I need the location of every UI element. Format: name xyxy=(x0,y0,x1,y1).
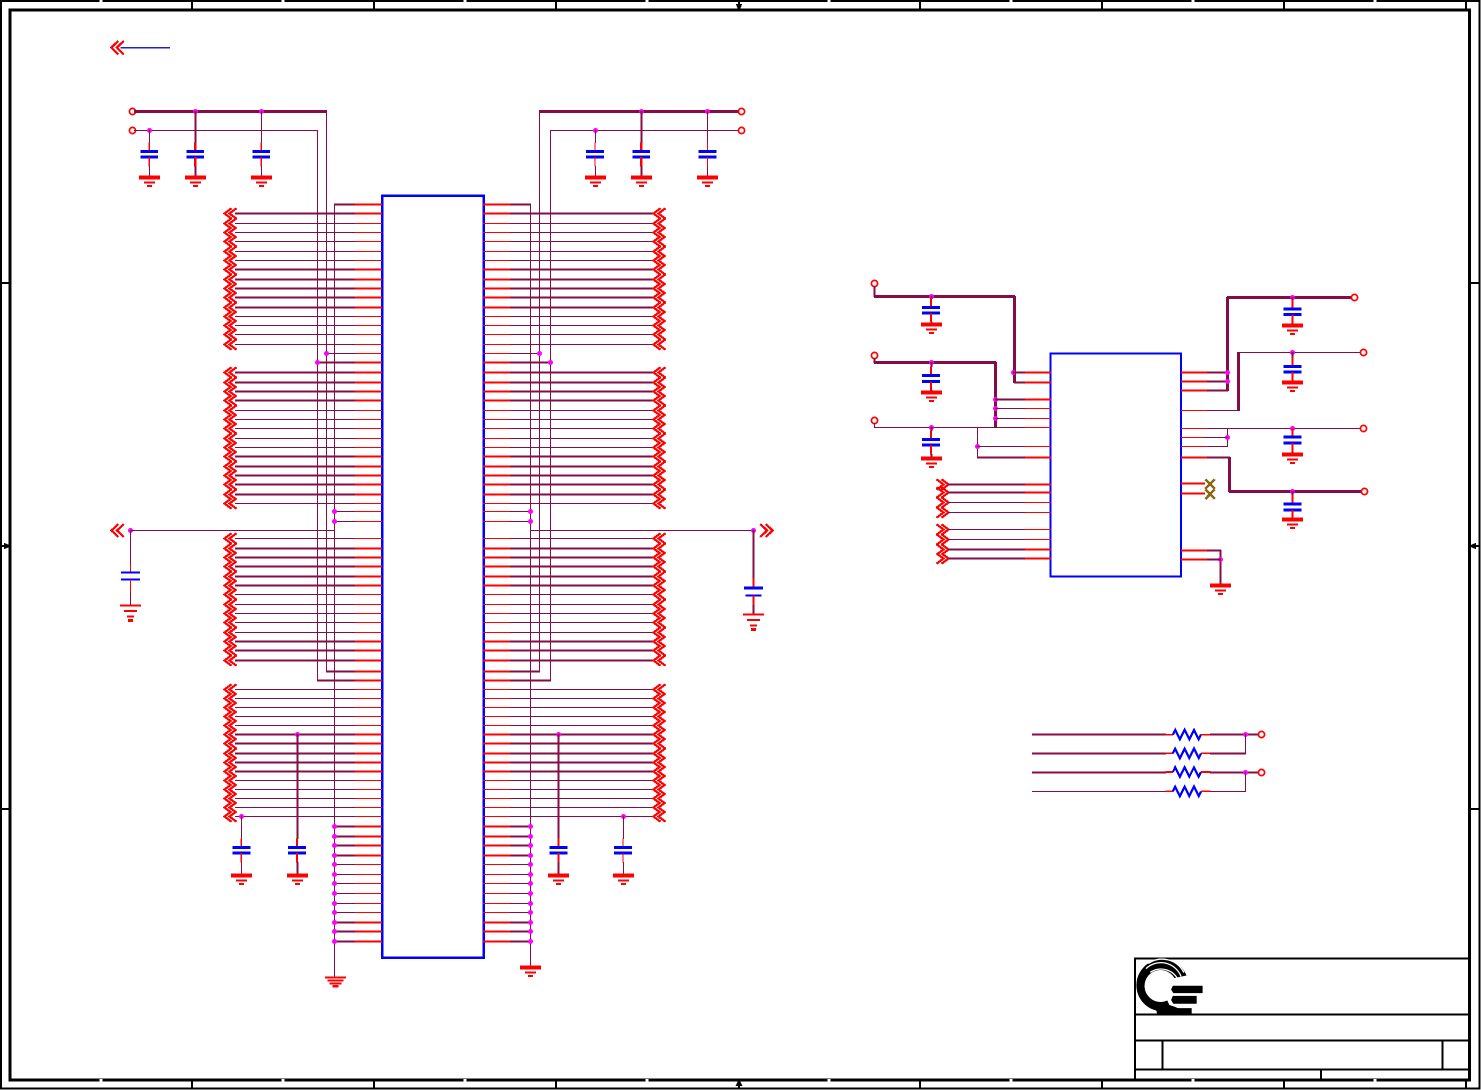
wire vertical xyxy=(1013,296,1016,383)
wire xyxy=(995,399,1026,401)
wire xyxy=(334,922,356,924)
wire xyxy=(510,698,654,700)
pin xyxy=(355,762,382,764)
bus entry xyxy=(225,580,237,590)
bus entry xyxy=(225,339,237,349)
wire vertical xyxy=(1245,734,1247,754)
wire xyxy=(326,353,356,355)
bus entry xyxy=(654,311,666,321)
pin xyxy=(483,223,511,225)
wire xyxy=(235,503,356,505)
border zone ticks top xyxy=(192,1,1466,10)
bus entry xyxy=(654,702,666,712)
pin xyxy=(483,903,511,905)
capacitor C10 xyxy=(922,296,940,325)
junction xyxy=(929,360,934,365)
pin xyxy=(355,807,382,809)
pin xyxy=(355,789,382,791)
wire xyxy=(510,260,654,262)
pin xyxy=(1025,457,1051,459)
pin xyxy=(483,576,511,578)
pin xyxy=(355,447,382,449)
pin xyxy=(355,456,382,458)
node open terminal xyxy=(1361,488,1367,494)
wire xyxy=(1210,772,1259,774)
wire xyxy=(510,874,531,876)
wire xyxy=(558,734,560,839)
pin xyxy=(355,400,382,402)
pin xyxy=(355,391,382,393)
ground xyxy=(120,606,141,621)
wire xyxy=(510,743,654,745)
junction xyxy=(528,853,533,858)
pin xyxy=(355,893,382,895)
pin xyxy=(483,922,511,924)
junction xyxy=(993,416,998,421)
bus entry xyxy=(654,218,666,228)
junction xyxy=(147,128,152,133)
wire xyxy=(334,521,356,523)
ground xyxy=(185,178,206,186)
capacitor C13 xyxy=(1284,297,1302,326)
border zone ticks bottom xyxy=(192,1080,1466,1088)
pin xyxy=(355,494,382,496)
bus entry xyxy=(225,617,237,627)
pin xyxy=(355,798,382,800)
junction xyxy=(528,891,533,896)
wire xyxy=(235,566,356,568)
bus entry xyxy=(654,302,666,312)
border center arrow top xyxy=(736,1,743,11)
bus entry xyxy=(225,766,237,776)
wire xyxy=(235,213,356,215)
ground xyxy=(1210,586,1231,594)
wire xyxy=(1207,410,1239,412)
wire xyxy=(235,585,356,587)
wire xyxy=(948,512,1026,514)
bus entry xyxy=(654,433,666,443)
pin xyxy=(355,260,382,262)
wire vertical rail A xyxy=(334,204,336,978)
wire xyxy=(510,762,654,764)
wire xyxy=(510,576,654,578)
wire xyxy=(948,539,1026,541)
wire xyxy=(510,344,654,346)
junction xyxy=(528,910,533,915)
wire xyxy=(510,353,540,355)
capacitor C15 xyxy=(1284,428,1302,455)
junction xyxy=(332,901,337,906)
wire xyxy=(948,484,1026,486)
wire xyxy=(1032,753,1166,755)
pin xyxy=(483,941,511,943)
capacitor C4 xyxy=(586,130,604,178)
wire xyxy=(235,734,356,736)
wire xyxy=(1207,457,1230,459)
wire vertical xyxy=(994,362,997,428)
bus entry xyxy=(225,461,237,471)
junction xyxy=(528,920,533,925)
wire xyxy=(1207,381,1228,383)
wire xyxy=(334,874,356,876)
node open terminal xyxy=(1360,425,1366,431)
bus entry xyxy=(225,738,237,748)
wire xyxy=(1238,352,1361,354)
pin xyxy=(483,325,511,327)
bus entry xyxy=(654,757,666,767)
pin xyxy=(483,241,511,243)
wire xyxy=(510,903,531,905)
pin xyxy=(1181,457,1208,459)
wire xyxy=(623,816,625,839)
bus entry xyxy=(225,292,237,302)
wire xyxy=(1204,437,1228,439)
bus entry xyxy=(225,636,237,646)
pin xyxy=(483,548,511,550)
pin xyxy=(1025,418,1051,420)
junction xyxy=(315,360,320,365)
wire xyxy=(1210,753,1246,755)
pin xyxy=(355,941,382,943)
junction xyxy=(295,732,300,737)
company logo xyxy=(1136,959,1202,1014)
wire xyxy=(874,423,876,428)
IC U1 xyxy=(382,196,484,958)
pin xyxy=(483,279,511,281)
capacitor C12 xyxy=(922,427,940,459)
pin xyxy=(355,269,382,271)
wire xyxy=(334,511,356,513)
wire xyxy=(235,660,356,662)
junction xyxy=(193,109,198,114)
pin xyxy=(483,716,511,718)
bus entry xyxy=(225,479,237,489)
junction xyxy=(332,853,337,858)
wire xyxy=(235,632,356,634)
bus entry xyxy=(654,533,666,543)
pin xyxy=(483,494,511,496)
wire xyxy=(235,316,356,318)
pin xyxy=(483,251,511,253)
wire vertical rail D xyxy=(530,204,532,968)
wire xyxy=(510,279,654,281)
pin xyxy=(483,438,511,440)
bus entry xyxy=(654,414,666,424)
wire xyxy=(235,771,356,773)
wire xyxy=(235,613,356,615)
bus entry xyxy=(225,405,237,415)
junction xyxy=(929,425,934,430)
bus entry xyxy=(225,627,237,637)
bus entry xyxy=(654,479,666,489)
pin xyxy=(355,566,382,568)
wire xyxy=(334,204,356,206)
wire xyxy=(510,372,654,374)
bus entry xyxy=(654,377,666,387)
wire xyxy=(1032,772,1166,774)
border center arrow left xyxy=(1,543,11,550)
pin xyxy=(483,557,511,559)
wire xyxy=(1032,791,1166,793)
bus entry xyxy=(654,461,666,471)
bus entry xyxy=(654,274,666,284)
wire xyxy=(235,419,356,421)
bus entry xyxy=(225,283,237,293)
wire xyxy=(235,807,356,809)
capacitor C16 xyxy=(1284,491,1302,519)
junction xyxy=(1225,435,1230,440)
pin xyxy=(483,419,511,421)
wire xyxy=(235,548,356,550)
junction xyxy=(993,397,998,402)
pin xyxy=(355,576,382,578)
bus entry xyxy=(225,571,237,581)
pin xyxy=(1025,492,1051,494)
junction xyxy=(528,929,533,934)
wire xyxy=(1207,372,1228,374)
pin xyxy=(355,251,382,253)
pin xyxy=(1181,559,1208,561)
bus entry xyxy=(654,405,666,415)
pin xyxy=(1025,512,1051,514)
junction xyxy=(528,843,533,848)
junction xyxy=(1290,295,1295,300)
junction xyxy=(1218,557,1223,562)
junction xyxy=(528,824,533,829)
pin xyxy=(483,269,511,271)
wire (blue net) xyxy=(121,47,171,49)
wire xyxy=(235,251,356,253)
bus entry xyxy=(225,218,237,228)
wire xyxy=(334,883,356,885)
bus entry xyxy=(225,693,237,703)
bus entry xyxy=(225,589,237,599)
wire xyxy=(334,903,356,905)
bus entry xyxy=(225,802,237,812)
wire xyxy=(510,641,654,643)
pin xyxy=(483,382,511,384)
capacitor C6 xyxy=(699,111,717,178)
wire xyxy=(510,557,654,559)
bus entry xyxy=(225,729,237,739)
capacitor C5 xyxy=(632,111,650,178)
bus entry xyxy=(654,498,666,508)
wire xyxy=(334,855,356,857)
junction xyxy=(528,519,533,524)
wire xyxy=(235,753,356,755)
pin xyxy=(355,641,382,643)
pin xyxy=(483,912,511,914)
border zone ticks right xyxy=(1470,283,1479,809)
pin xyxy=(355,632,382,634)
pin xyxy=(355,816,382,818)
wire xyxy=(510,671,540,673)
junction xyxy=(332,824,337,829)
wire bus xyxy=(874,295,1015,298)
junction xyxy=(332,843,337,848)
junction xyxy=(528,901,533,906)
wire xyxy=(510,456,654,458)
pin xyxy=(355,316,382,318)
wire xyxy=(510,419,654,421)
wire xyxy=(510,680,551,682)
wire xyxy=(235,447,356,449)
pin xyxy=(483,334,511,336)
wire xyxy=(334,826,356,828)
pin xyxy=(1025,502,1051,504)
capacitor C at x=558.4 xyxy=(550,838,568,876)
bus entry xyxy=(654,386,666,396)
bus entry xyxy=(225,655,237,665)
wire xyxy=(510,447,654,449)
bus entry xyxy=(225,793,237,803)
junction xyxy=(993,406,998,411)
pin xyxy=(355,864,382,866)
pin xyxy=(355,232,382,234)
bus entry xyxy=(225,451,237,461)
capacitor C at x=297 xyxy=(288,838,306,876)
pin xyxy=(355,883,382,885)
wire vertical xyxy=(977,427,979,458)
pin xyxy=(483,680,511,682)
pin xyxy=(1025,408,1051,410)
wire xyxy=(235,410,356,412)
bus entry xyxy=(654,636,666,646)
pin xyxy=(483,316,511,318)
bus entry xyxy=(654,227,666,237)
wire xyxy=(510,511,531,513)
bus entry xyxy=(654,442,666,452)
border zone ticks left xyxy=(1,283,10,809)
wire xyxy=(510,734,654,736)
node open terminal xyxy=(871,417,877,423)
ground xyxy=(921,325,942,333)
bus entry xyxy=(654,255,666,265)
pin xyxy=(355,922,382,924)
bus entry xyxy=(654,617,666,627)
junction xyxy=(332,920,337,925)
bus entry xyxy=(225,377,237,387)
ground xyxy=(1282,520,1303,528)
bus entry xyxy=(654,711,666,721)
bus entry xyxy=(654,208,666,218)
ground xyxy=(1282,326,1303,334)
wire xyxy=(948,558,1026,560)
bus entry xyxy=(225,264,237,274)
pin xyxy=(483,456,511,458)
bus entry xyxy=(654,599,666,609)
wire xyxy=(235,816,356,818)
node VDD2 left open terminal xyxy=(129,127,135,133)
wire VDD2 right xyxy=(550,130,739,132)
ground xyxy=(520,968,541,976)
pin xyxy=(1025,372,1051,374)
junction xyxy=(639,109,644,114)
bus entry xyxy=(654,720,666,730)
wire xyxy=(235,279,356,281)
bus entry xyxy=(654,627,666,637)
pin xyxy=(355,475,382,477)
capacitor C11 xyxy=(922,362,940,393)
wire xyxy=(510,223,654,225)
wire vertical rail F xyxy=(550,130,552,681)
wire xyxy=(948,549,1026,551)
wire xyxy=(510,585,654,587)
pin xyxy=(483,734,511,736)
wire xyxy=(235,789,356,791)
wire xyxy=(1207,446,1228,448)
pin xyxy=(483,660,511,662)
pin xyxy=(355,334,382,336)
pin xyxy=(483,707,511,709)
wire xyxy=(530,530,754,532)
ground xyxy=(139,178,160,186)
bus entry xyxy=(225,608,237,618)
junction xyxy=(332,872,337,877)
wire xyxy=(235,604,356,606)
wire xyxy=(995,408,1026,410)
wire xyxy=(235,762,356,764)
bus entry xyxy=(654,784,666,794)
wire xyxy=(510,594,654,596)
wire xyxy=(334,893,356,895)
border center arrow right xyxy=(1469,543,1479,550)
pin xyxy=(483,594,511,596)
pin xyxy=(355,410,382,412)
pin xyxy=(483,466,511,468)
bus entry xyxy=(225,227,237,237)
pin xyxy=(1181,483,1205,485)
wire xyxy=(235,698,356,700)
bus entry xyxy=(225,255,237,265)
bus entry xyxy=(225,711,237,721)
junction xyxy=(528,862,533,867)
ground xyxy=(548,876,569,884)
junction xyxy=(259,109,264,114)
pin xyxy=(483,826,511,828)
pin xyxy=(483,893,511,895)
pin xyxy=(483,874,511,876)
bus entry xyxy=(225,386,237,396)
capacitor C at x=623 xyxy=(614,838,632,876)
bus entry xyxy=(225,599,237,609)
pin xyxy=(355,836,382,838)
pin xyxy=(355,204,382,206)
wire xyxy=(297,734,299,839)
junction xyxy=(975,444,980,449)
bus entry xyxy=(225,498,237,508)
wire xyxy=(1207,550,1221,552)
pin xyxy=(355,903,382,905)
pin xyxy=(355,698,382,700)
pin xyxy=(355,613,382,615)
junction xyxy=(556,732,561,737)
bus entry xyxy=(654,645,666,655)
wire xyxy=(334,941,356,943)
pin xyxy=(1181,493,1205,495)
junction xyxy=(128,528,133,533)
pin xyxy=(483,632,511,634)
pin xyxy=(1025,446,1051,448)
pin xyxy=(355,716,382,718)
wire vertical xyxy=(1237,352,1240,411)
node open terminal xyxy=(1360,349,1366,355)
wire xyxy=(510,362,551,364)
wire xyxy=(334,845,356,847)
wire xyxy=(235,689,356,691)
wire xyxy=(510,466,654,468)
wire xyxy=(235,707,356,709)
